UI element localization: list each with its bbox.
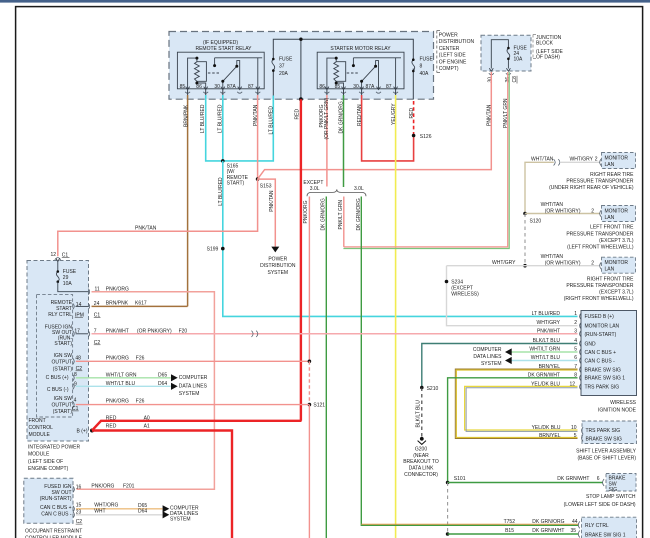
- wire BLK dashed S210 to G200: [421, 388, 423, 437]
- svg-text:DATA LINES: DATA LINES: [473, 354, 502, 360]
- svg-text:PRESSURE TRANSPONDER: PRESSURE TRANSPONDER: [566, 283, 634, 289]
- svg-text:COMPT): COMPT): [439, 66, 459, 72]
- svg-text:85: 85: [180, 84, 186, 90]
- coil: [197, 58, 207, 81]
- fuse F24: [507, 49, 510, 59]
- svg-text:SYSTEM: SYSTEM: [268, 270, 289, 276]
- svg-text:87: 87: [248, 84, 254, 90]
- svg-text:K617: K617: [135, 301, 147, 307]
- svg-text:D65: D65: [158, 372, 167, 378]
- wire WHT/LT GRN D65: [76, 377, 171, 379]
- svg-text:PNK/ORG: PNK/ORG: [91, 484, 114, 490]
- svg-text:C BUS (-): C BUS (-): [47, 387, 69, 393]
- wire RED A0: [92, 421, 302, 431]
- svg-text:16: 16: [76, 484, 82, 490]
- svg-text:SHIFT LEVER ASSEMBLY: SHIFT LEVER ASSEMBLY: [576, 448, 637, 454]
- svg-text:RIGHT FRONT TIRE: RIGHT FRONT TIRE: [587, 276, 634, 282]
- node F26 junction: [308, 360, 312, 364]
- svg-text:(EXCEPT 3.7L): (EXCEPT 3.7L): [599, 290, 634, 296]
- relay K2 pin labels: [319, 84, 391, 90]
- wire PNK/ORG dashed to S121: [308, 361, 310, 404]
- fixed contact drop: [214, 58, 216, 66]
- svg-text:WIRELESS): WIRELESS): [451, 292, 479, 298]
- svg-text:BRAKE SW SIG 1: BRAKE SW SIG 1: [585, 533, 626, 538]
- svg-text:30: 30: [214, 84, 220, 90]
- svg-text:SIG: SIG: [609, 487, 618, 493]
- svg-text:PNK/ORG: PNK/ORG: [106, 286, 129, 292]
- svg-text:YEL/DK BLU: YEL/DK BLU: [532, 425, 561, 431]
- ORC dashed box: [24, 478, 73, 523]
- svg-text:10: 10: [571, 425, 577, 431]
- svg-text:CAN C BUS -: CAN C BUS -: [585, 358, 616, 364]
- svg-text:IGN SW: IGN SW: [54, 353, 73, 359]
- fuse F29: [57, 261, 59, 271]
- svg-text:OF DASH): OF DASH): [536, 55, 560, 61]
- svg-text:(OR PNK/LT GRN): (OR PNK/LT GRN): [324, 97, 330, 139]
- svg-text:CENTER: CENTER: [439, 46, 460, 52]
- svg-text:S210: S210: [427, 386, 439, 392]
- svg-text:5: 5: [574, 433, 577, 439]
- WIN pin connectors: [580, 313, 582, 390]
- svg-text:RED: RED: [106, 415, 117, 421]
- svg-text:PRESSURE TRANSPONDER: PRESSURE TRANSPONDER: [566, 178, 634, 184]
- svg-text:INTEGRATED POWER: INTEGRATED POWER: [28, 444, 81, 450]
- svg-text:YEL/GRY: YEL/GRY: [391, 103, 397, 125]
- svg-text:BRAKE SW SIG 1: BRAKE SW SIG 1: [585, 376, 626, 382]
- svg-text:PNK/TAN: PNK/TAN: [487, 104, 493, 126]
- wire WHT D64: [76, 514, 162, 516]
- wire WHT/GRY S234 to transponder3: [447, 265, 600, 267]
- svg-text:B15: B15: [505, 528, 514, 534]
- svg-text:S153: S153: [260, 183, 272, 189]
- 87A drop: [237, 61, 240, 89]
- svg-text:PNK/WHT: PNK/WHT: [537, 329, 560, 335]
- svg-text:PNK/TAN: PNK/TAN: [135, 225, 157, 231]
- svg-text:(LEFT SIDE OF: (LEFT SIDE OF: [28, 459, 63, 465]
- svg-text:RED: RED: [106, 424, 117, 430]
- svg-text:C BUS (+): C BUS (+): [46, 375, 69, 381]
- wire PNK/ORG F26 pin48: [76, 360, 310, 362]
- svg-text:86: 86: [196, 84, 202, 90]
- wire DK GRN/WHT B15: [448, 533, 578, 535]
- svg-text:RIGHT REAR TIRE: RIGHT REAR TIRE: [590, 172, 634, 178]
- wire PNK/ORG F26 pin4 to S121: [76, 404, 310, 406]
- svg-text:BRAKE SW SIG: BRAKE SW SIG: [585, 367, 622, 373]
- svg-text:10A: 10A: [63, 281, 73, 287]
- svg-text:WHT/TAN: WHT/TAN: [541, 202, 564, 208]
- feed bus wire: [273, 39, 413, 99]
- svg-text:8: 8: [420, 64, 423, 70]
- svg-text:CAN C BUS +: CAN C BUS +: [585, 350, 617, 356]
- wire dashed S101 to B15: [447, 483, 449, 535]
- svg-text:WHT/LT GRN: WHT/LT GRN: [106, 372, 137, 378]
- svg-text:10A: 10A: [514, 57, 524, 63]
- svg-text:SYSTEM: SYSTEM: [170, 517, 191, 523]
- svg-text:WHT/TAN: WHT/TAN: [541, 254, 564, 260]
- JB socket arcs: [489, 73, 511, 74]
- svg-text:1: 1: [574, 311, 577, 317]
- node S234: [445, 280, 449, 284]
- svg-text:14: 14: [76, 302, 82, 308]
- relay K2 pin stubs: [327, 89, 396, 95]
- svg-text:START): START): [54, 341, 72, 347]
- svg-text:FUSED B (+): FUSED B (+): [585, 314, 615, 320]
- svg-text:OUTPUT: OUTPUT: [51, 359, 72, 365]
- svg-text:POWER: POWER: [268, 257, 287, 263]
- svg-text:40A: 40A: [420, 71, 430, 77]
- coil branch pin 85: [188, 58, 197, 89]
- fuse F37: [272, 60, 275, 71]
- relay K1 socket arcs: [185, 92, 260, 93]
- svg-text:COMPUTER: COMPUTER: [179, 375, 208, 381]
- monitor lan box 3: [602, 257, 636, 273]
- wire PNK/TAN S153 to power distribution: [258, 179, 276, 247]
- shift lever box: [582, 421, 637, 444]
- wire DK GRN/ORG T752: [361, 523, 578, 525]
- wire RED PDC to A0 corner: [300, 99, 302, 421]
- svg-text:(LEFT SIDE: (LEFT SIDE: [439, 53, 467, 59]
- svg-text:CONNECTOR): CONNECTOR): [404, 472, 438, 478]
- svg-text:TRS PARK SIG: TRS PARK SIG: [585, 385, 620, 391]
- wire WHT/LT GRN WIN pin5: [512, 351, 578, 353]
- node S120: [523, 212, 527, 216]
- svg-text:DK GRN/ORG: DK GRN/ORG: [532, 519, 564, 525]
- IPM dashed box: [27, 261, 89, 442]
- wire DK GRN/ORG except 3.0L branch: [325, 197, 327, 538]
- wire DK GRN/WHT WIN pin8 to S101: [448, 378, 578, 483]
- top rail to pin 87: [215, 57, 263, 59]
- JB internal wire: [491, 40, 508, 69]
- svg-text:BRN/PNK: BRN/PNK: [106, 301, 129, 307]
- wire PNK/TAN S153 to IPM pin12: [58, 179, 258, 256]
- svg-text:(LEFT FRONT WHEELWELL): (LEFT FRONT WHEELWELL): [567, 245, 634, 251]
- PDC caption bracket: [436, 31, 438, 73]
- switch common pin 30: [222, 81, 224, 89]
- WIN pin numbers: [569, 311, 577, 388]
- svg-text:(RUN-START): (RUN-START): [585, 332, 617, 338]
- svg-text:PNK/WHT: PNK/WHT: [106, 328, 129, 334]
- svg-text:WHT/LT BLU: WHT/LT BLU: [106, 381, 136, 387]
- svg-text:86: 86: [319, 84, 325, 90]
- svg-text:S101: S101: [454, 476, 466, 482]
- svg-text:STOP LAMP SWITCH: STOP LAMP SWITCH: [586, 494, 636, 500]
- svg-text:2: 2: [591, 208, 594, 214]
- svg-text:DISTRIBUTION: DISTRIBUTION: [439, 39, 475, 45]
- svg-text:LAN: LAN: [605, 267, 615, 273]
- svg-text:DK GRN/WHT: DK GRN/WHT: [532, 528, 564, 534]
- svg-text:2: 2: [574, 320, 577, 326]
- svg-text:REMOTE: REMOTE: [51, 300, 73, 306]
- node PDC exit dot: [299, 97, 303, 101]
- top blue bar: [0, 0, 650, 3]
- svg-text:IGNITION NODE: IGNITION NODE: [598, 407, 637, 413]
- wire DK GRN/WHT S101 to brake sw: [448, 482, 603, 484]
- relay K1 internal junction dots: [195, 57, 198, 60]
- node B15 junction: [446, 532, 450, 536]
- svg-text:PNK/TAN: PNK/TAN: [253, 104, 259, 126]
- svg-text:(START): (START): [53, 409, 73, 415]
- svg-text:20A: 20A: [279, 71, 289, 77]
- wire BRN/PNK pin85 K1: [187, 95, 189, 306]
- svg-text:WHT/GRY: WHT/GRY: [536, 320, 560, 326]
- WIN wire labels: [528, 311, 561, 388]
- svg-text:MONITOR: MONITOR: [605, 260, 629, 266]
- svg-text:S126: S126: [420, 134, 432, 140]
- PDC dashed box: [169, 32, 434, 100]
- mech link dashes: [208, 72, 220, 74]
- svg-text:FUSE: FUSE: [279, 56, 293, 62]
- svg-text:RED: RED: [409, 108, 415, 119]
- svg-text:LT BLU/RED: LT BLU/RED: [217, 104, 223, 133]
- wire dashed S120 to WHT/GRY node: [524, 214, 526, 266]
- wire LT BLU/RED pin30 K1: [222, 95, 224, 161]
- svg-text:START): START): [227, 180, 245, 186]
- svg-text:CAN C BUS -: CAN C BUS -: [41, 512, 72, 518]
- svg-text:LT BLU/RED: LT BLU/RED: [200, 104, 206, 133]
- svg-text:BREAKOUT TO: BREAKOUT TO: [403, 459, 439, 465]
- svg-text:RED: RED: [294, 109, 300, 120]
- svg-text:(NEAR: (NEAR: [413, 453, 429, 459]
- node S121: [308, 403, 312, 407]
- svg-text:OF ENGINE: OF ENGINE: [439, 59, 467, 65]
- node S153: [256, 177, 260, 181]
- svg-text:STARTER MOTOR RELAY: STARTER MOTOR RELAY: [330, 46, 391, 52]
- svg-text:BLK/LT BLU: BLK/LT BLU: [416, 400, 422, 428]
- relay K2 internal junction dots: [335, 57, 338, 60]
- wire YEL/GRY pin87 K2: [395, 95, 397, 538]
- wire WHT/LT BLU WIN pin6: [512, 360, 578, 362]
- node S165: [221, 159, 225, 163]
- svg-text:REMOTE START RELAY: REMOTE START RELAY: [195, 46, 252, 52]
- node WHT/GRY junction: [523, 264, 527, 268]
- svg-text:SYSTEM: SYSTEM: [481, 361, 502, 367]
- wire WHT/TAN S120 to transponder2: [525, 213, 600, 215]
- svg-text:MODULE: MODULE: [28, 452, 50, 458]
- svg-text:(BASE OF SHIFT LEVER): (BASE OF SHIFT LEVER): [577, 456, 636, 462]
- svg-text:3: 3: [574, 329, 577, 335]
- svg-text:48: 48: [75, 355, 81, 361]
- svg-text:(EXCEPT 3.7L): (EXCEPT 3.7L): [599, 238, 634, 244]
- svg-text:(OR PNK/GRY): (OR PNK/GRY): [137, 328, 172, 334]
- svg-text:DATA LINES: DATA LINES: [179, 384, 208, 390]
- wire WHT/TAN S120 up to transponder1: [525, 162, 554, 213]
- svg-text:LT BLU/RED: LT BLU/RED: [268, 106, 274, 135]
- svg-text:DK GRN/ORG: DK GRN/ORG: [321, 198, 327, 230]
- svg-text:POWER: POWER: [439, 33, 458, 39]
- svg-text:WIRELESS: WIRELESS: [610, 400, 637, 406]
- svg-text:SYSTEM: SYSTEM: [179, 391, 200, 397]
- svg-text:LT BLU/RED: LT BLU/RED: [532, 311, 561, 317]
- computer data lines arrows lower: [163, 505, 170, 512]
- svg-text:6: 6: [597, 476, 600, 482]
- svg-text:BLOCK: BLOCK: [536, 41, 554, 47]
- svg-text:2: 2: [595, 157, 598, 163]
- svg-text:RED/TAN: RED/TAN: [357, 104, 363, 126]
- computer data lines arrows right: [505, 348, 512, 355]
- WIN box: [581, 311, 637, 396]
- wire LT BLU/RED fuse37 out: [223, 96, 274, 161]
- relay K2 socket arcs: [324, 92, 398, 93]
- svg-text:D64: D64: [158, 381, 167, 387]
- svg-text:30: 30: [353, 84, 359, 90]
- svg-text:2: 2: [591, 261, 594, 267]
- svg-text:FRONT: FRONT: [29, 418, 46, 424]
- svg-text:CAN C BUS +: CAN C BUS +: [40, 505, 72, 511]
- svg-text:T752: T752: [504, 519, 516, 525]
- svg-text:(IF EQUIPPED): (IF EQUIPPED): [203, 40, 238, 46]
- svg-text:DK GRN/ORG: DK GRN/ORG: [356, 198, 362, 230]
- wire WHT/LT BLU D64: [76, 385, 171, 387]
- monitor lan box 2: [602, 206, 636, 222]
- node S126: [412, 134, 416, 138]
- monitor lan box 1: [602, 153, 636, 169]
- svg-text:RLY CTRL: RLY CTRL: [585, 523, 609, 529]
- svg-text:PNK/ORG: PNK/ORG: [303, 200, 309, 223]
- svg-text:F26: F26: [136, 356, 145, 362]
- svg-text:TRS PARK SIG: TRS PARK SIG: [586, 428, 621, 434]
- svg-text:37: 37: [279, 64, 285, 70]
- svg-text:3.0L: 3.0L: [354, 186, 364, 192]
- node S101: [446, 481, 450, 485]
- ground G200: [420, 437, 424, 441]
- svg-text:(RUN-START): (RUN-START): [40, 496, 72, 502]
- svg-text:(LOWER LEFT SIDE OF DASH): (LOWER LEFT SIDE OF DASH): [564, 502, 636, 508]
- relay K1 pin labels: [180, 84, 254, 90]
- svg-text:PNK/LT GRN: PNK/LT GRN: [503, 98, 509, 128]
- svg-text:MONITOR: MONITOR: [605, 209, 629, 215]
- wire PNK/ORG S121 down: [308, 405, 310, 538]
- JB caption bracket: [532, 35, 534, 59]
- power distribution system arrow: [271, 247, 279, 253]
- fuse F8: [412, 60, 415, 71]
- brake sw sig box: [606, 474, 636, 492]
- svg-text:PNK/ORG: PNK/ORG: [106, 399, 129, 405]
- wire LT BLU/RED pin86 K1: [206, 95, 223, 161]
- svg-text:PNK/ORG: PNK/ORG: [106, 356, 129, 362]
- inline connector on F20: [252, 331, 254, 337]
- svg-text:15: 15: [76, 503, 82, 509]
- svg-text:OUTPUT: OUTPUT: [51, 402, 72, 408]
- bottom module dashed box: [582, 517, 637, 538]
- svg-text:GND: GND: [585, 341, 597, 347]
- svg-text:DK GRN/ORG: DK GRN/ORG: [338, 101, 344, 133]
- svg-text:(RIGHT FRONT WHEELWELL): (RIGHT FRONT WHEELWELL): [564, 296, 634, 302]
- variant brace: [307, 189, 366, 196]
- junction block dashed box: [481, 35, 531, 71]
- wire RED fuse8 to S126 dashed: [413, 101, 415, 136]
- svg-text:(OR WHT/GRY): (OR WHT/GRY): [545, 208, 581, 214]
- relay K2 STARTER MOTOR RELAY box: [317, 52, 404, 89]
- wire WHT/GRY vertical to WIN pin2: [447, 266, 578, 326]
- svg-text:ENGINE COMPT): ENGINE COMPT): [28, 466, 69, 472]
- svg-text:DISTRIBUTION: DISTRIBUTION: [260, 263, 296, 269]
- svg-text:S120: S120: [530, 218, 542, 224]
- wire DK GRN/ORG pin85 K2: [343, 95, 345, 187]
- relay K1 pin stubs: [188, 89, 258, 95]
- wire DK GRN/ORG 3.0L branch to T752: [360, 197, 362, 525]
- svg-text:BRN/YEL: BRN/YEL: [539, 433, 561, 439]
- svg-text:MONITOR LAN: MONITOR LAN: [585, 323, 620, 329]
- svg-text:87A: 87A: [366, 84, 376, 90]
- wire PNK/TAN pin87 K1 to S153: [257, 95, 259, 179]
- svg-text:87: 87: [386, 84, 392, 90]
- svg-text:12: 12: [50, 252, 56, 258]
- relay K1 pin arrows: [186, 87, 260, 90]
- wire RED/TAN pin30 K2 to S126: [362, 95, 414, 161]
- wire LT BLU/RED S165 to S199 to WIN: [223, 161, 578, 317]
- svg-text:S199: S199: [207, 247, 219, 253]
- svg-text:A0: A0: [144, 415, 150, 421]
- svg-text:35: 35: [570, 528, 576, 534]
- svg-text:RLY CTRL: RLY CTRL: [48, 312, 72, 318]
- FCM dashed box: [37, 295, 73, 417]
- svg-text:CONTROL: CONTROL: [29, 425, 54, 431]
- svg-text:S121: S121: [313, 403, 325, 409]
- wire WHT/ORG D65: [76, 508, 162, 510]
- svg-text:FUSE: FUSE: [420, 56, 434, 62]
- svg-text:LEFT FRONT TIRE: LEFT FRONT TIRE: [590, 225, 634, 231]
- fuse29 out to pin 11: [58, 282, 89, 292]
- svg-text:WHT/GRY: WHT/GRY: [570, 157, 594, 163]
- switch blade: [223, 66, 237, 81]
- computer data lines arrows upper: [171, 374, 178, 381]
- node S210: [420, 386, 424, 390]
- svg-text:LAN: LAN: [605, 162, 615, 168]
- svg-text:85: 85: [335, 84, 341, 90]
- svg-text:3.0L: 3.0L: [310, 186, 320, 192]
- svg-text:A1: A1: [144, 424, 150, 430]
- svg-text:PNK/LT GRN: PNK/LT GRN: [338, 200, 344, 230]
- JB pin arrows: [489, 68, 510, 71]
- svg-text:MONITOR: MONITOR: [605, 156, 629, 162]
- svg-text:F201: F201: [123, 484, 135, 490]
- svg-text:DK GRN/WHT: DK GRN/WHT: [557, 476, 589, 482]
- svg-text:(START): (START): [53, 366, 73, 372]
- svg-text:D64: D64: [138, 509, 147, 515]
- node S199: [221, 247, 225, 251]
- wire PNK/ORG pin86 K2: [326, 95, 328, 187]
- svg-text:LAN: LAN: [605, 215, 615, 221]
- svg-text:OCCUPANT RESTRAINT: OCCUPANT RESTRAINT: [25, 528, 82, 534]
- svg-text:WHT: WHT: [94, 509, 105, 515]
- node bus dot: [299, 38, 302, 41]
- relay K2 pin arrows: [325, 87, 398, 90]
- wire PNK/LT GRN 3.0L branch to JB pin36: [343, 197, 345, 247]
- wire BRN/PNK pin24 to relay K1 pin85: [92, 305, 188, 307]
- svg-text:DATA LINK: DATA LINK: [409, 465, 434, 471]
- svg-text:WHT/GRY: WHT/GRY: [492, 260, 516, 266]
- svg-text:PRESSURE TRANSPONDER: PRESSURE TRANSPONDER: [566, 231, 634, 237]
- wire PNK/ORG pin11 to ORC pin16: [77, 292, 215, 490]
- svg-text:87A: 87A: [227, 84, 237, 90]
- wire PNK/TAN S153 to JB pin30: [258, 72, 492, 179]
- svg-text:MODULE: MODULE: [29, 432, 51, 438]
- relay K1 REMOTE START RELAY box: [177, 52, 264, 89]
- svg-text:4: 4: [74, 398, 77, 404]
- svg-text:IGN SW: IGN SW: [54, 396, 73, 402]
- wire YEL/DK BLU WIN pin12 to shift pin10: [465, 386, 578, 430]
- svg-text:44: 44: [572, 519, 578, 525]
- wire PNK/ORG except 3.0L branch: [308, 197, 310, 362]
- svg-text:BRAKE SW SIG: BRAKE SW SIG: [586, 436, 623, 442]
- wire BLK/LT BLU WIN pin4 to S210: [422, 344, 578, 388]
- svg-text:G200: G200: [415, 446, 427, 452]
- wire RED A1: [92, 431, 232, 538]
- svg-text:F26: F26: [136, 399, 145, 405]
- svg-text:17: 17: [74, 328, 80, 334]
- svg-text:LT BLU/RED: LT BLU/RED: [218, 177, 224, 206]
- svg-text:PNK/TAN: PNK/TAN: [269, 190, 275, 212]
